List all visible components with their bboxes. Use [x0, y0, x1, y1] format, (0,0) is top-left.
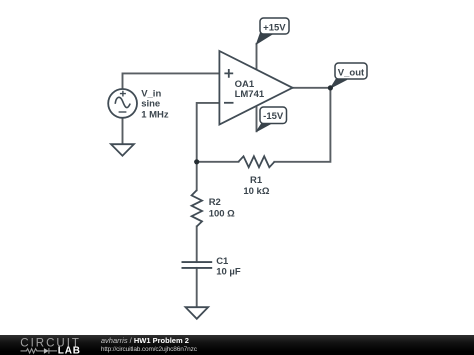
wire: V_in bottom to ground — [122, 118, 124, 144]
CircuitLab logo — [0, 335, 95, 355]
label V_in sine 1 MHz — [141, 88, 169, 120]
ground (below C1) — [186, 307, 209, 319]
svg-text:R1: R1 — [250, 175, 263, 186]
wire: op-amp output to V_out node — [293, 87, 331, 89]
footer bar — [0, 335, 474, 355]
wire: op-amp - input to feedback node — [197, 103, 220, 162]
wire: op-amp V- pin to -15V flag — [256, 106, 258, 132]
svg-text:V_out: V_out — [338, 67, 365, 78]
label R1 10 kOhm — [243, 175, 269, 197]
svg-text:sine: sine — [141, 99, 160, 110]
wire: V_out node down to R1 right lead — [274, 88, 330, 162]
svg-text:LM741: LM741 — [235, 89, 265, 100]
power flag -15V — [257, 107, 287, 131]
svg-text:1 MHz: 1 MHz — [141, 109, 169, 120]
svg-text:LAB: LAB — [58, 346, 81, 355]
net flag V_out — [331, 63, 367, 88]
voltage source V_in — [108, 89, 137, 118]
footer title — [101, 337, 189, 345]
label OA1 LM741 — [235, 79, 265, 100]
wire: feedback node to R1 left lead — [197, 161, 239, 163]
resistor R2 — [192, 190, 202, 226]
wire: C1 bottom plate to ground — [196, 268, 198, 307]
op-amp OA1 LM741 — [219, 51, 292, 125]
node: feedback junction — [194, 159, 199, 164]
ground (below V_in) — [111, 144, 134, 156]
power flag +15V — [257, 18, 290, 44]
footer url — [101, 346, 197, 353]
svg-text:-15V: -15V — [263, 111, 284, 122]
wire: R2 bottom to C1 top plate — [196, 227, 198, 263]
label R2 100 Ohm — [209, 197, 235, 219]
svg-text:+15V: +15V — [263, 22, 286, 33]
svg-text:R2: R2 — [209, 197, 221, 208]
wire: +15V flag to op-amp V+ pin — [256, 44, 258, 70]
svg-text:C1: C1 — [216, 256, 229, 267]
capacitor C1 — [182, 262, 213, 268]
label C1 10 uF — [216, 256, 241, 278]
resistor R1 — [238, 156, 274, 167]
node: V_out junction — [328, 85, 333, 90]
svg-text:10 µF: 10 µF — [216, 267, 241, 278]
wire: feedback node to R2 top lead — [196, 162, 198, 190]
svg-text:100 Ω: 100 Ω — [209, 208, 235, 219]
svg-text:10 kΩ: 10 kΩ — [243, 186, 269, 197]
wire: V_in top to op-amp + input — [123, 73, 220, 89]
